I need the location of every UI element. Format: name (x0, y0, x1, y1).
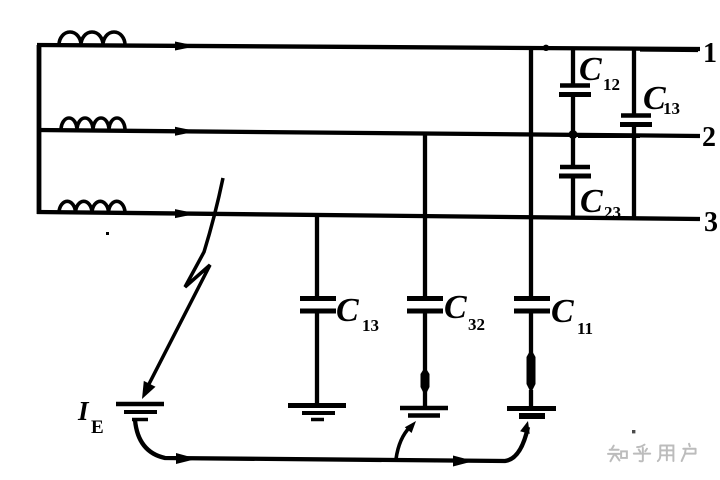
svg-text:C: C (579, 51, 602, 88)
svg-text:13: 13 (362, 316, 379, 335)
svg-text:C: C (336, 292, 359, 329)
svg-text:C: C (444, 289, 467, 326)
svg-text:13: 13 (663, 99, 680, 118)
svg-text:2: 2 (702, 122, 716, 153)
svg-text:3: 3 (704, 207, 718, 238)
svg-text:23: 23 (604, 203, 621, 222)
svg-text:E: E (91, 417, 104, 438)
svg-text:I: I (77, 396, 90, 426)
svg-text:C: C (580, 183, 603, 220)
svg-text:12: 12 (603, 75, 620, 94)
svg-text:C: C (551, 293, 574, 330)
svg-text:32: 32 (468, 315, 485, 334)
svg-text:1: 1 (703, 38, 717, 69)
svg-text:11: 11 (577, 319, 593, 338)
